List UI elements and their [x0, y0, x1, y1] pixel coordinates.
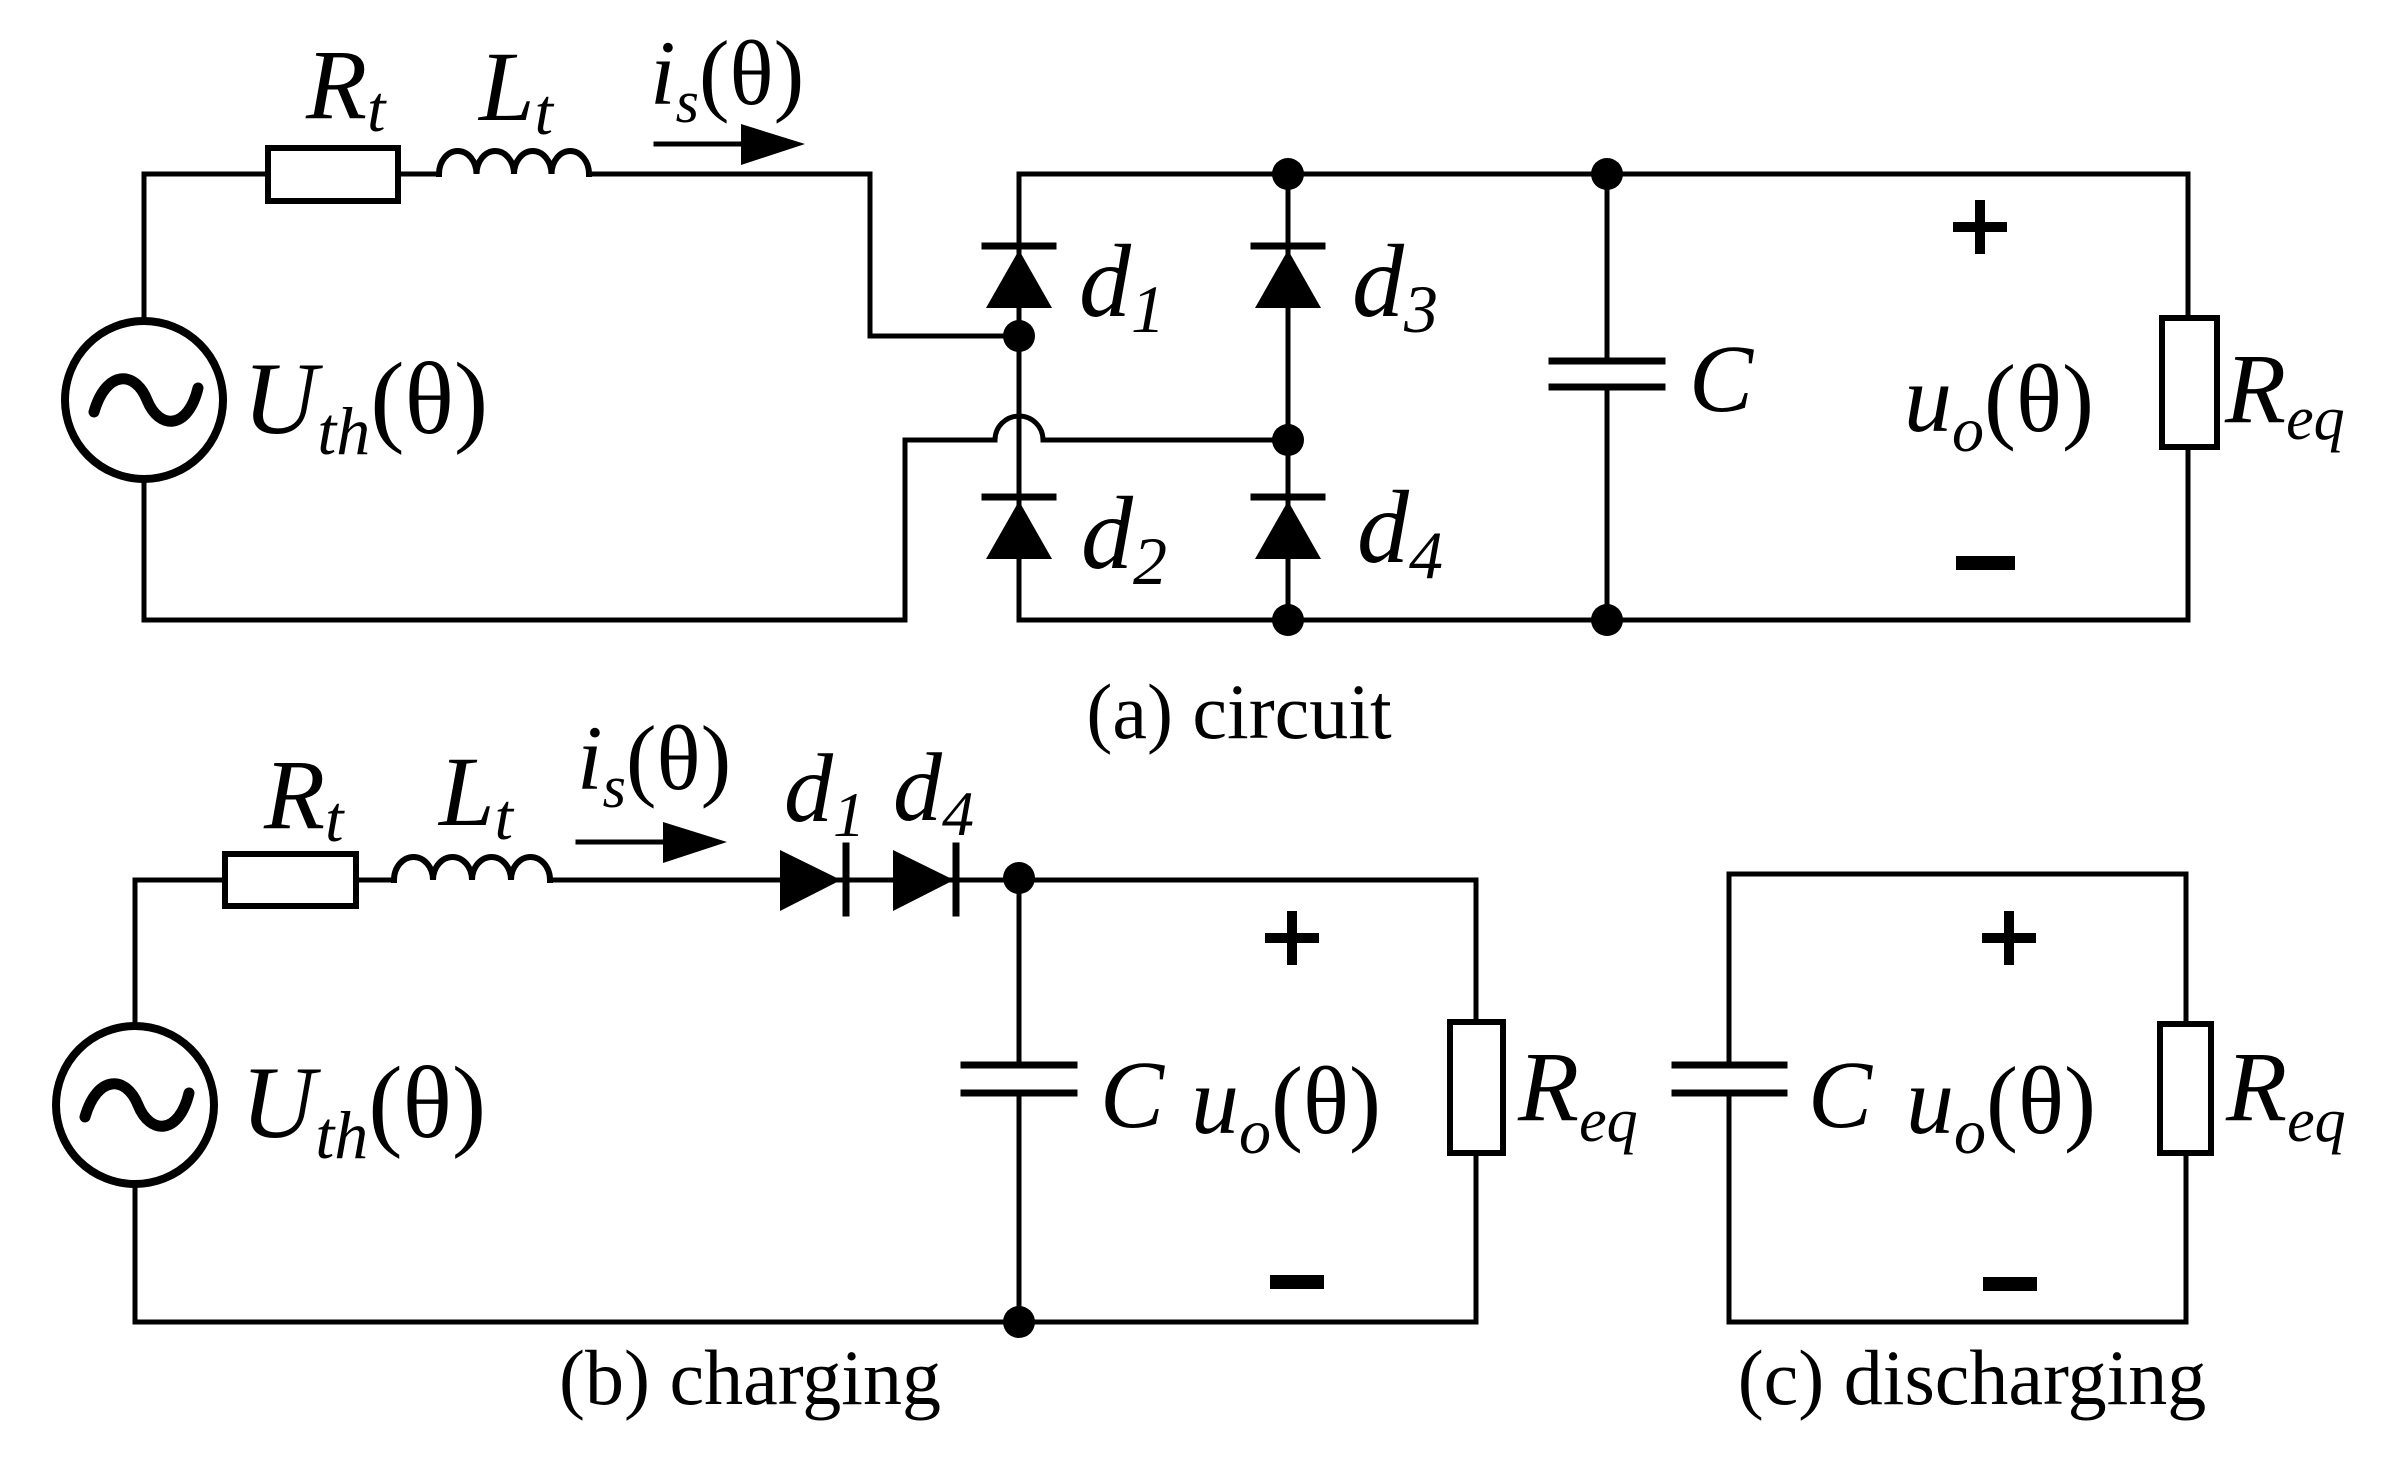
- diode d1 (b): [780, 846, 846, 913]
- wire inductor to Req (b): [550, 878, 1476, 883]
- resistor Req (b): [1450, 880, 1503, 1322]
- current arrow is (a): [656, 124, 805, 165]
- minus sign (c): [1990, 1277, 2030, 1291]
- wire source top to resistor (a): [144, 174, 268, 321]
- svg-text:(c) discharging: (c) discharging: [1738, 1334, 2207, 1421]
- voltage source Uth (a): [65, 321, 223, 479]
- svg-text:(b) charging: (b) charging: [559, 1334, 941, 1421]
- wire resistor to inductor (a): [398, 172, 439, 177]
- node dot top d3 (a): [1272, 158, 1304, 190]
- diode d4 (a): [1254, 497, 1322, 559]
- resistor Rt (b): [225, 854, 356, 906]
- plus sign (a): [1958, 205, 2002, 249]
- wire hop to d3-d4 node (a): [1043, 438, 1288, 443]
- wire source bottom to d3-d4 node (a): [144, 440, 995, 620]
- wire source top to resistor (b): [135, 880, 225, 1026]
- wire top rail (c): [1729, 872, 2186, 877]
- capacitor C (b): [964, 880, 1074, 1322]
- wire hop over left branch (a): [995, 416, 1043, 440]
- plus sign (c): [1987, 916, 2031, 960]
- node dot d3-d4 (a): [1272, 424, 1304, 456]
- diode d1 (a): [985, 246, 1053, 308]
- wire inductor to bridge node (a): [589, 174, 1019, 336]
- svg-text:(a) circuit: (a) circuit: [1086, 668, 1392, 755]
- inductor Lt (a): [439, 151, 589, 174]
- minus sign (b): [1277, 1275, 1317, 1289]
- inductor Lt (b): [394, 857, 550, 880]
- wire bottom rail (c): [1729, 1320, 2186, 1325]
- wire source bottom rail (b): [135, 1184, 1476, 1322]
- svg-text:uo(θ): uo(θ): [1904, 345, 2094, 465]
- resistor Rt (a): [268, 148, 398, 201]
- svg-text:uo(θ): uo(θ): [1191, 1047, 1381, 1167]
- minus sign (a): [1963, 556, 2008, 570]
- diode d2 (a): [985, 497, 1053, 559]
- wire bridge top rail (a): [1019, 172, 2188, 177]
- svg-text:C: C: [1689, 325, 1754, 432]
- svg-text:is(θ): is(θ): [577, 707, 731, 820]
- node dot d1-d2 (a): [1003, 320, 1035, 352]
- svg-text:C: C: [1808, 1041, 1873, 1148]
- node dot bottom d4 (a): [1272, 604, 1304, 636]
- resistor Req (a): [2162, 174, 2217, 620]
- current arrow is (b): [578, 822, 727, 863]
- svg-text:uo(θ): uo(θ): [1906, 1047, 2096, 1167]
- wire bridge bottom rail (a): [1019, 618, 2188, 623]
- plus sign (b): [1270, 916, 1314, 960]
- resistor Req (c): [2160, 874, 2211, 1322]
- node dot top C (b): [1003, 862, 1035, 894]
- diode d4 (b): [893, 846, 956, 913]
- capacitor C (a): [1552, 174, 1662, 620]
- node dot top C (a): [1591, 158, 1623, 190]
- diode d3 (a): [1254, 246, 1322, 308]
- node dot bottom C (a): [1591, 604, 1623, 636]
- wire bridge left branch (a): [1017, 174, 1022, 620]
- voltage source Uth (b): [56, 1026, 214, 1184]
- svg-text:C: C: [1100, 1041, 1165, 1148]
- svg-text:is(θ): is(θ): [650, 22, 804, 135]
- node dot bottom C (b): [1003, 1306, 1035, 1338]
- wire bridge right branch (a): [1286, 174, 1291, 620]
- capacitor C (c): [1675, 874, 1784, 1322]
- wire resistor to inductor (b): [356, 878, 394, 883]
